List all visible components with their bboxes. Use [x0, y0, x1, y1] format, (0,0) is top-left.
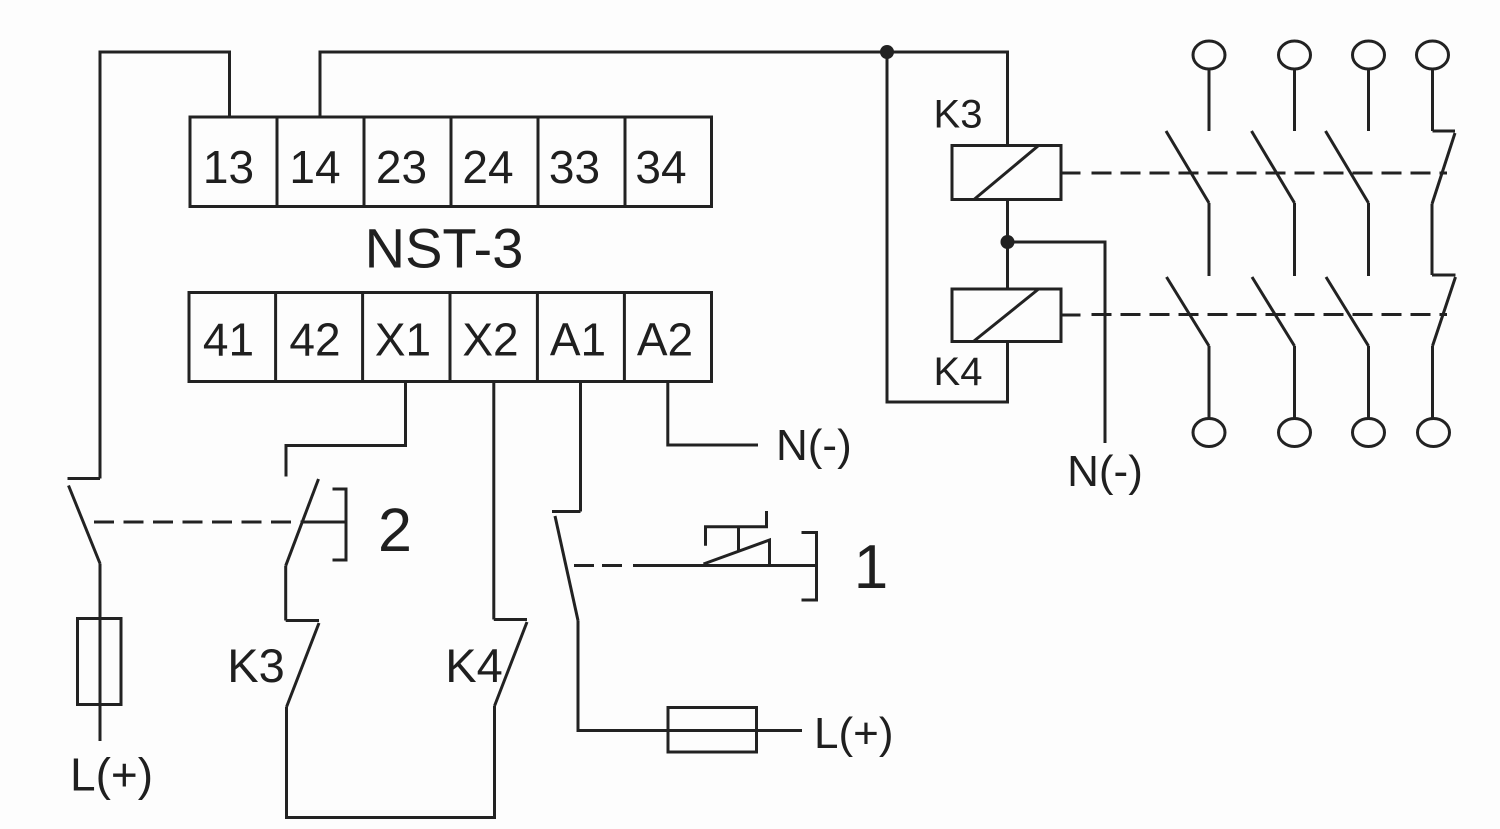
left switch S0 fixed bar [68, 477, 101, 480]
contact column 3 mid lead [1367, 203, 1370, 276]
svg-text:33: 33 [549, 141, 600, 193]
wire A1 to estop 1 [579, 382, 582, 512]
svg-text:42: 42 [289, 314, 340, 366]
svg-text:K4: K4 [934, 350, 983, 394]
contact column 2 bottom lead [1293, 346, 1296, 419]
terminal block bottom (41 42 X1 X2 A1 A2) [189, 293, 712, 382]
wire terminal 14 to relay K3 [320, 52, 1008, 146]
contact column 1 bottom lead [1208, 346, 1211, 419]
wire X1 to button 2 [286, 382, 406, 477]
estop actuator bar solid [633, 564, 817, 567]
contact column 2 bottom circle [1279, 419, 1311, 447]
svg-text:13: 13 [203, 141, 254, 193]
contact K3.2 blade [1252, 131, 1295, 203]
contact K3 aux fixed bar [286, 619, 319, 622]
svg-text:N(-): N(-) [1067, 447, 1143, 496]
contact K3.4 blade [1432, 133, 1455, 204]
svg-text:N(-): N(-) [776, 421, 852, 470]
contact K4.3 blade [1326, 277, 1369, 346]
svg-text:L(+): L(+) [70, 749, 153, 801]
svg-text:41: 41 [203, 314, 254, 366]
svg-text:K3: K3 [934, 93, 983, 137]
contact K3.1 blade [1166, 131, 1209, 203]
wire terminal 13 to left switch [100, 52, 230, 479]
contact column 2 mid lead [1293, 203, 1296, 276]
button 2 bracket actuator [333, 489, 347, 560]
wire K3 to K4 [1006, 200, 1009, 290]
mechanical link dashed (switch S0 to button 2) [94, 521, 302, 524]
contact K4.4 NC bar [1432, 274, 1456, 277]
fuse F1 [78, 619, 122, 705]
contact column 4 bottom lead [1431, 346, 1434, 419]
svg-text:X1: X1 [375, 314, 431, 366]
svg-text:NST-3: NST-3 [365, 217, 524, 280]
estop mushroom cap [706, 511, 767, 546]
svg-text:1: 1 [854, 533, 888, 602]
svg-text:X2: X2 [462, 314, 518, 366]
contact column 4 top circle [1417, 41, 1449, 69]
wire K3 aux down and across [287, 706, 495, 818]
wire A2 to N(-) [668, 382, 758, 446]
svg-text:L(+): L(+) [814, 709, 893, 758]
contact K3 aux blade [287, 623, 320, 707]
svg-text:A2: A2 [637, 314, 693, 366]
K3 actuation stub [1061, 172, 1081, 175]
contact column 3 top circle [1353, 41, 1385, 69]
relay coil K3 [952, 146, 1061, 200]
contact column 1 top circle [1193, 41, 1225, 69]
fuse F2 [668, 708, 757, 753]
wire switch to fuse F1 and L(+) [99, 564, 102, 742]
contact column 1 bottom circle [1193, 419, 1225, 447]
junction node dot 1 [880, 45, 894, 59]
estop mechanical dashed link [574, 564, 630, 567]
contact K3.3 blade [1326, 131, 1369, 203]
contact column 4 top lead [1431, 69, 1434, 131]
contact column 3 bottom circle [1353, 419, 1385, 447]
contact K4 aux blade [495, 622, 528, 706]
junction node dot 2 [1001, 235, 1015, 249]
svg-text:K3: K3 [227, 639, 285, 692]
contact K4.2 blade [1252, 277, 1295, 346]
wire node to N(-) lower [1008, 242, 1106, 443]
wire X2 to K4 aux [492, 382, 495, 620]
contact K4 aux fixed bar [494, 618, 527, 621]
contact column 3 top lead [1367, 69, 1370, 131]
left switch S0 blade [69, 486, 101, 564]
estop 1 blade [555, 516, 578, 621]
contact column 3 bottom lead [1367, 346, 1370, 419]
estop mushroom stem [737, 527, 740, 551]
K4 actuation dashed line row 2 [1092, 313, 1448, 316]
svg-text:14: 14 [289, 141, 340, 193]
estop 1 fixed bar [552, 510, 581, 513]
contact column 1 top lead [1208, 69, 1211, 131]
terminal block top (13 14 23 24 33 34) [190, 117, 712, 207]
svg-text:K4: K4 [445, 639, 503, 692]
svg-text:24: 24 [462, 141, 513, 193]
contact K3.4 NC bar [1433, 130, 1456, 133]
svg-text:34: 34 [635, 141, 686, 193]
svg-text:A1: A1 [550, 314, 606, 366]
svg-text:2: 2 [378, 496, 412, 564]
wire parallel loop to K4 bottom [887, 52, 1008, 402]
contact column 2 top lead [1293, 69, 1296, 131]
contact column 2 top circle [1279, 41, 1311, 69]
relay coil K4 [952, 289, 1061, 342]
contact column 4 mid lead [1431, 204, 1434, 275]
plunger link solid to button 2 bracket [302, 521, 346, 524]
estop 1 bracket actuator [802, 533, 817, 601]
button 2 blade [286, 479, 319, 566]
K3 actuation dashed line row 1 [1092, 172, 1448, 175]
wire estop to fuse F2 [578, 621, 802, 731]
contact column 1 mid lead [1208, 203, 1211, 276]
svg-text:23: 23 [376, 141, 427, 193]
contact K4.1 blade [1167, 277, 1210, 346]
contact column 4 bottom circle [1418, 419, 1450, 447]
contact K4.4 blade [1433, 277, 1456, 346]
wire button 2 to contact K3 aux [284, 566, 287, 621]
estop latch pawl [704, 540, 770, 566]
K4 actuation stub [1061, 314, 1081, 317]
